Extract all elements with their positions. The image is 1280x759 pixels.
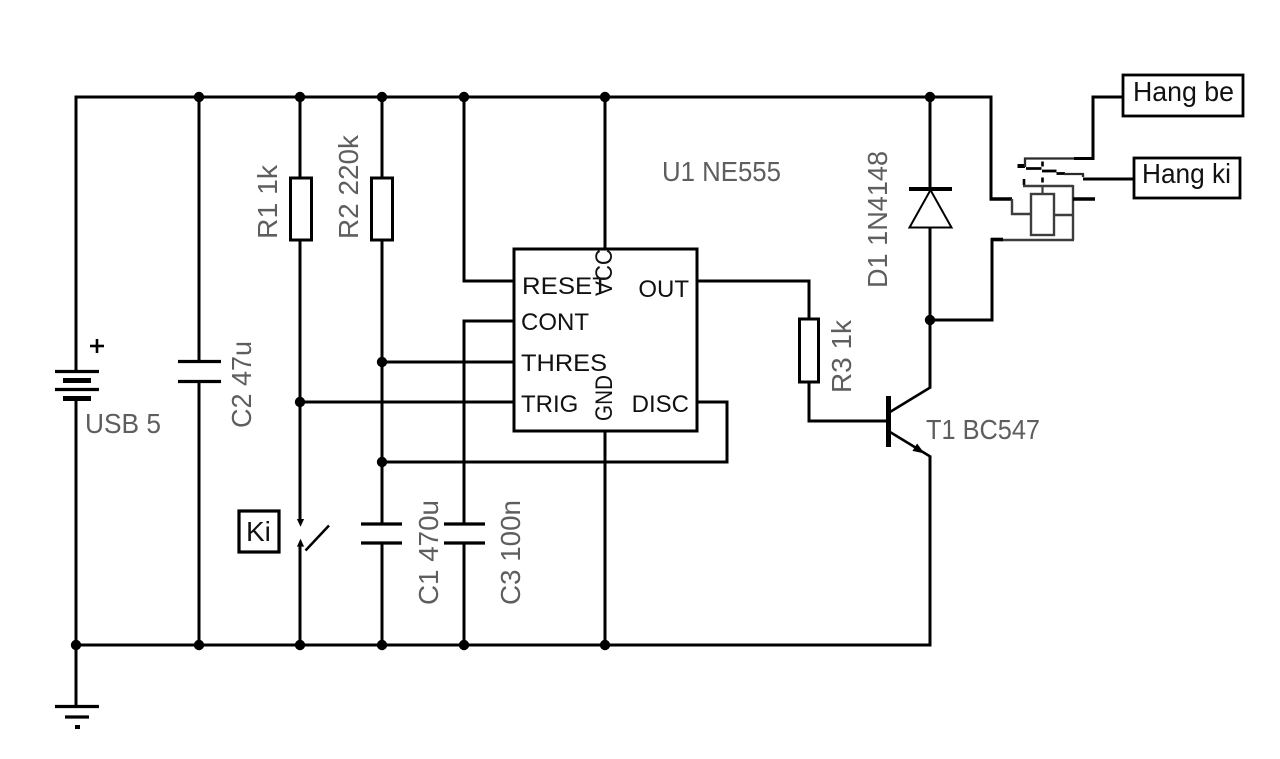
Ki label box: [239, 511, 279, 552]
wire: C3 bottom to ground rail: [463, 543, 466, 645]
wire: R2 top branch: [381, 97, 384, 178]
svg-text:TRIG: TRIG: [521, 391, 578, 418]
svg-text:Hang ki: Hang ki: [1142, 158, 1231, 189]
junction dot top rail RESET: [459, 92, 469, 102]
node box Hang ki: [1134, 158, 1240, 198]
svg-text:DISC: DISC: [632, 391, 689, 418]
wire: RESET vertical from top rail: [464, 97, 514, 281]
switch Ki arrows and blade: [297, 519, 329, 551]
wire: R3 to T1 base: [809, 382, 887, 421]
wire: TRIG net from R1/Ki node to U1: [300, 401, 514, 404]
svg-text:Ki: Ki: [246, 516, 271, 547]
wire: relay feed from top rail: [990, 96, 993, 200]
wire: +5V top rail: [75, 96, 992, 99]
relay contact 1 fixed stub: [1018, 164, 1026, 168]
wire: relay coil right side return: [1001, 185, 1074, 240]
relay contact 1 arm: [1026, 167, 1042, 170]
wire: T1 collector vertical: [929, 320, 932, 388]
wire: T1 emitter vertical to bottom rail: [929, 456, 932, 647]
wire: C1 bottom to ground rail: [381, 543, 384, 645]
wire: CONT to C3 vertical: [464, 321, 514, 524]
ground symbol: [55, 707, 99, 728]
wire: C2 bottom branch: [198, 381, 201, 645]
junction dot bottom rail Ki: [295, 640, 305, 650]
wire: GND pin to bottom rail: [604, 431, 607, 645]
battery B1 USB 5: [55, 372, 99, 399]
wire: THRES net from R2/C1 node to U1: [382, 361, 514, 364]
svg-text:C1 470u: C1 470u: [413, 500, 444, 605]
resistor R3: [800, 319, 819, 382]
svg-text:T1 BC547: T1 BC547: [926, 414, 1040, 445]
junction dot bottom rail GND: [600, 640, 610, 650]
resistor R1: [291, 178, 312, 240]
node box Hang be: [1123, 75, 1243, 116]
wire: actuator to coil: [1041, 186, 1043, 195]
wire: OUT to R3: [697, 281, 809, 319]
junction dot top rail R2: [377, 92, 387, 102]
wire: relay return to collector node: [991, 238, 1003, 322]
battery plus sign: [90, 339, 104, 353]
svg-text:OUT: OUT: [638, 276, 689, 303]
svg-text:C2 47u: C2 47u: [226, 341, 257, 428]
wire: relay feed step to coil: [990, 199, 1032, 214]
junction dot DISC node: [377, 457, 387, 467]
svg-text:VCC: VCC: [591, 249, 618, 296]
wire: R2 bottom to C1 top: [381, 240, 384, 524]
svg-text:CONT: CONT: [521, 309, 589, 336]
transistor T1 emitter arrow: [913, 444, 925, 454]
wire: left rail from top rail to battery +: [75, 96, 78, 373]
junction dot top rail C2: [194, 92, 204, 102]
junction dot top rail D1: [925, 92, 935, 102]
capacitor C2: [178, 362, 221, 382]
wire: D1 anode to collector node: [929, 228, 932, 322]
relay contact 2 fixed stub: [1023, 179, 1026, 185]
junction dot top rail R1: [295, 92, 305, 102]
transistor T1 BC547: [889, 387, 932, 457]
svg-text:R2 220k: R2 220k: [333, 134, 364, 239]
capacitor C1: [361, 524, 402, 543]
svg-text:D1 1N4148: D1 1N4148: [862, 151, 893, 288]
junction dot collector node: [925, 315, 935, 325]
svg-text:THRES: THRES: [521, 350, 607, 377]
wire: ground stem: [75, 645, 78, 707]
svg-text:C3 100n: C3 100n: [495, 500, 526, 605]
relay actuator dashed line: [1041, 162, 1044, 183]
svg-text:U1 NE555: U1 NE555: [662, 156, 781, 187]
svg-text:USB 5: USB 5: [85, 408, 161, 439]
wire: C2 top branch: [198, 97, 201, 361]
wire: Hang ki contact line: [1064, 174, 1134, 179]
svg-text:R3 1k: R3 1k: [826, 319, 857, 393]
wire: battery minus to bottom rail: [75, 398, 78, 646]
wire: DISC return net: [382, 402, 727, 462]
junction dot bottom rail C1: [377, 640, 387, 650]
svg-text:R1 1k: R1 1k: [252, 164, 283, 239]
junction dot THRES node: [377, 357, 387, 367]
svg-text:GND: GND: [591, 375, 618, 421]
diode D1 1N4148: [909, 189, 952, 228]
wire: R1 bottom to switch Ki: [299, 240, 302, 519]
op-amp U1 NE555 body: [514, 249, 697, 431]
junction dot top rail VCC: [600, 92, 610, 102]
wire: switch Ki to bottom rail: [299, 544, 302, 645]
wire: contact 2 to coil return: [1023, 185, 1073, 187]
junction dot bottom rail C2: [194, 640, 204, 650]
junction dot bottom rail ground: [71, 640, 81, 650]
relay K1 coil: [1031, 194, 1054, 235]
capacitor C3: [444, 524, 485, 543]
junction dot TRIG node: [295, 397, 305, 407]
wire: ground bottom rail: [75, 644, 931, 647]
resistor R2: [372, 178, 393, 240]
svg-text:Hang be: Hang be: [1133, 76, 1234, 107]
junction dot bottom rail C3: [459, 640, 469, 650]
wire: VCC pin to top rail: [604, 97, 607, 249]
wire: D1 top branch from rail: [929, 97, 932, 189]
wire: collector node to relay return: [930, 319, 992, 322]
wire: R1 top branch: [299, 97, 302, 178]
relay contact stub NC: [1073, 197, 1095, 201]
wire: Hang be contact line: [1025, 97, 1123, 167]
relay contact 2 arm: [1042, 171, 1065, 174]
